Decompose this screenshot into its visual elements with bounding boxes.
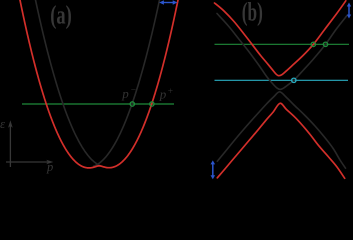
- svg-text:p: p: [46, 160, 53, 174]
- cyan marker circle on black band (b): [292, 78, 296, 82]
- marker circle p+ on red curve: [150, 102, 154, 106]
- blue double arrow bottom left (b): [211, 160, 216, 179]
- blue momentum-shift double arrow top of panel a: [159, 0, 177, 4]
- green line (b): [215, 43, 350, 45]
- blue double arrow top right (b): [347, 3, 351, 19]
- svg-text:−: −: [131, 85, 136, 95]
- black bare parabola (right branch, vertex left) panel a: [94, 0, 160, 166]
- black lower bare band (b): [217, 92, 345, 168]
- svg-text:(a): (a): [50, 1, 72, 30]
- green chemical potential line (a): [22, 103, 174, 105]
- red lower dressed band (b): [217, 103, 344, 178]
- svg-text:p: p: [121, 86, 129, 101]
- svg-text:p: p: [159, 87, 167, 102]
- red lower dressed band panel a: [20, 0, 178, 168]
- axis p (horizontal arrow): [6, 160, 53, 165]
- marker circle p- on black curve: [130, 102, 134, 106]
- red upper dressed band (b): [215, 1, 346, 76]
- black bare parabola (left branch, vertex right) panel a: [36, 0, 102, 166]
- black upper bare band (b): [217, 14, 347, 90]
- svg-text:ε: ε: [0, 116, 6, 131]
- svg-text:(b): (b): [242, 0, 263, 26]
- axis epsilon (vertical arrow): [8, 120, 13, 167]
- cyan line (b): [215, 79, 349, 81]
- svg-text:+: +: [168, 87, 173, 97]
- green marker circle on black band (b): [323, 42, 327, 46]
- green marker circle on red band (b): [311, 42, 315, 46]
